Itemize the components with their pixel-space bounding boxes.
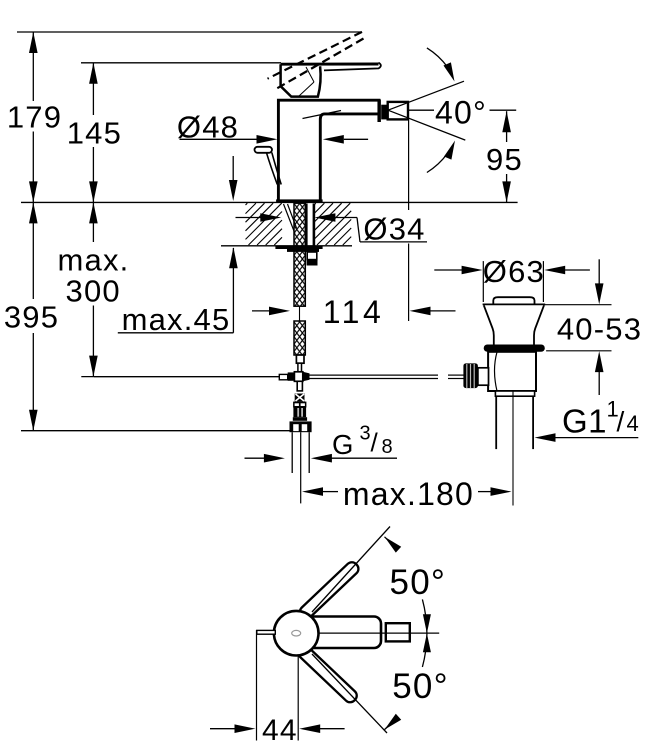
deck hatching left block — [246, 203, 283, 245]
dimension g38 text — [332, 423, 393, 461]
extension line, 179 top reference — [17, 31, 361, 33]
angle arc lower inner — [422, 633, 427, 667]
dimension 395 line — [32, 202, 34, 430]
dimension 114 left arrow — [252, 307, 290, 316]
angle 50 deg text upper — [390, 563, 447, 602]
supply pipe centerline — [300, 432, 302, 503]
top view spout — [300, 617, 381, 649]
raised handle dashed line lower — [277, 39, 363, 89]
dimension 95 text — [486, 142, 523, 177]
dimension d48 right arrow — [323, 135, 368, 144]
hose end striped body — [293, 408, 306, 418]
dimension d63 left arrow — [434, 266, 482, 275]
top view logo mark — [292, 630, 301, 636]
dimension 179 text — [7, 100, 62, 135]
pop-up rod double line right — [310, 375, 465, 378]
dimension 145 line — [92, 63, 94, 203]
g38 connection nut — [290, 421, 312, 432]
faucet body and spout outline — [278, 100, 379, 199]
top view handle lower position — [296, 644, 359, 705]
dimension max180 right arrow — [478, 487, 512, 496]
flexible hose braid lower — [294, 321, 305, 355]
svg-text:50°: 50° — [392, 667, 449, 706]
spray angle upper arc arrow — [444, 62, 455, 81]
dimension d63 right arrow — [544, 266, 590, 275]
extension line, 395 bottom reference — [21, 430, 291, 432]
hose end braid piece — [295, 394, 305, 402]
dimension 179 arrow up — [29, 32, 38, 53]
deck hatching right block — [314, 203, 351, 245]
svg-text:/: / — [371, 428, 379, 458]
svg-text:395: 395 — [4, 300, 59, 335]
dimension 4053 arrow down — [595, 259, 604, 304]
dimension max45 up arrow — [229, 247, 238, 333]
top view pop-up knob tab — [257, 630, 276, 634]
dimension 95 arrow up — [502, 111, 511, 132]
faucet base plate — [276, 199, 323, 203]
waste flange top — [483, 303, 546, 305]
dimension g38 left arrow — [245, 454, 285, 463]
spray angle upper arc — [427, 48, 448, 67]
waste knob collar — [478, 368, 489, 385]
aerator connector block — [381, 105, 386, 120]
waste tailpipe — [496, 396, 533, 449]
raised handle dashed line upper — [268, 32, 363, 79]
top view faucet body circle — [274, 611, 319, 656]
dimension d34 text — [363, 212, 425, 247]
angle arc lower arrow at line — [385, 714, 402, 730]
dimension 44 ext lines — [257, 630, 299, 741]
rod coupling cross piece — [279, 372, 309, 382]
svg-text:300: 300 — [66, 274, 121, 309]
rod coupling stem lower — [297, 381, 302, 391]
angle ext line lower — [312, 654, 387, 733]
spray angle lower arc arrow — [444, 141, 455, 160]
dimension d48 left arrow — [180, 135, 278, 144]
locknut washer under deck — [275, 246, 322, 252]
angle arc lower outer — [385, 722, 393, 730]
anchor wedge lines — [284, 204, 297, 234]
dimension max180 left arrow — [302, 487, 338, 496]
spout end face — [378, 100, 381, 123]
spray angle 40 deg text — [435, 95, 487, 131]
waste flange taper sides — [484, 305, 544, 344]
waste centerline — [512, 391, 514, 506]
svg-text:4: 4 — [627, 411, 639, 436]
dimension 395 text — [4, 300, 59, 335]
dimension 145 arrow down — [89, 181, 98, 202]
svg-text:G1: G1 — [562, 403, 607, 440]
dimension max300 arrow down — [89, 356, 98, 377]
dimension 95 line — [506, 111, 508, 202]
handle pivot inner lines — [299, 67, 314, 96]
dimension 95 arrow down — [502, 181, 511, 202]
dimension max300 arrow up — [89, 202, 98, 223]
angle arc upper inner — [422, 599, 427, 633]
supply pipe lines — [292, 432, 309, 473]
dimension max180 text — [343, 476, 474, 512]
dimension 395 arrow up — [29, 202, 38, 223]
spray angle leader line — [409, 109, 516, 111]
svg-text:40-53: 40-53 — [557, 311, 642, 346]
dimension 179 arrow down — [29, 181, 38, 202]
angle arc upper arrow at axis — [423, 614, 431, 633]
dimension 395 arrow down — [29, 410, 38, 431]
svg-text:145: 145 — [67, 116, 122, 151]
dimension max300 line — [92, 202, 94, 377]
flexible hose braid upper — [294, 203, 305, 306]
dimension g38 right arrow — [311, 454, 397, 463]
extension line, pop-up rod level — [81, 376, 279, 378]
label g114 leader arrow — [535, 433, 639, 442]
waste rubber gasket — [484, 345, 545, 352]
angle arc lower arrow at axis — [423, 633, 431, 652]
svg-text:179: 179 — [7, 100, 62, 135]
dimension 44 left arrow — [210, 724, 256, 733]
dimension 114 text — [323, 294, 385, 330]
svg-text:95: 95 — [486, 142, 523, 177]
svg-text:max.: max. — [58, 243, 130, 278]
spout inner contour line — [303, 111, 342, 119]
top view spout axis line — [319, 632, 440, 634]
spray angle lower leg — [388, 110, 465, 140]
svg-text:Ø63: Ø63 — [483, 254, 545, 289]
dimension d34 left arrow — [236, 213, 282, 222]
waste valve body — [488, 352, 536, 391]
dimension 4053 text — [557, 311, 642, 346]
svg-text:max.180: max.180 — [343, 476, 474, 512]
svg-text:114: 114 — [323, 294, 385, 330]
hose end lower band — [293, 417, 307, 421]
handle lever blade — [281, 63, 381, 71]
svg-text:8: 8 — [382, 436, 393, 458]
dimension max45 down arrow — [229, 156, 238, 201]
dimension max45 underline — [118, 332, 234, 334]
top view handle upper position — [298, 560, 361, 621]
aerator housing box — [388, 102, 408, 120]
extension line, 145 lever-top reference — [81, 62, 281, 64]
dimension d34 leader — [314, 213, 360, 242]
dimension 114 ext line at aerator — [408, 121, 410, 322]
dimension 114 right arrow — [410, 307, 456, 316]
svg-text:Ø34: Ø34 — [363, 212, 425, 247]
mounting deck underside line — [221, 245, 352, 247]
svg-text:44: 44 — [262, 714, 298, 747]
dimension d63 text — [483, 254, 545, 289]
label g114 text — [562, 397, 639, 440]
dimension 145 arrow up — [89, 63, 98, 84]
spray angle upper leg — [388, 81, 464, 110]
angle arc upper outer — [385, 537, 393, 545]
dimension 4053 arrow up — [595, 351, 604, 395]
waste knurled knob — [463, 363, 478, 388]
angle 50 deg text lower — [392, 667, 449, 706]
dimension 44 right arrow — [299, 724, 344, 733]
angle ext line upper — [312, 527, 390, 613]
dimension 145 text — [67, 116, 122, 151]
dimension max45 text — [122, 302, 231, 337]
waste valve body inner arc — [495, 352, 498, 391]
dimension 4053 ext line bottom — [546, 350, 611, 352]
dimension 44 text — [262, 714, 298, 747]
hose end collar — [293, 402, 306, 408]
mounting deck top surface line — [21, 201, 518, 203]
dimension d63 ext lines — [483, 261, 543, 302]
fixing bolt in hole — [307, 204, 314, 246]
pop-up rod single line left — [94, 376, 279, 378]
dimension 4053 ext line top — [544, 304, 611, 306]
dimension max300 text 300 — [66, 274, 121, 309]
spray angle lower arc — [427, 153, 448, 172]
svg-text:50°: 50° — [390, 563, 447, 602]
dimension d48 text — [177, 109, 239, 144]
angle arc upper arrow at line — [385, 537, 402, 553]
dimension 179 line — [32, 32, 34, 202]
svg-text:G: G — [332, 429, 354, 460]
top view aerator — [386, 623, 410, 641]
hose break centerline — [299, 306, 301, 321]
pop-up rod knob behind body — [255, 147, 282, 185]
dimension max300 text max. — [58, 243, 130, 278]
waste dome cap — [493, 297, 534, 304]
dimension d34 underline — [360, 241, 427, 243]
handle pivot block outline — [281, 64, 321, 96]
fixing nut below deck — [307, 252, 318, 266]
svg-text:/: / — [617, 406, 625, 437]
hose end fitting upper — [296, 355, 304, 363]
rod coupling stem upper — [298, 363, 302, 372]
svg-text:40°: 40° — [435, 95, 487, 131]
svg-text:max.45: max.45 — [122, 302, 231, 337]
svg-text:3: 3 — [360, 423, 371, 445]
waste lower band — [495, 391, 534, 396]
